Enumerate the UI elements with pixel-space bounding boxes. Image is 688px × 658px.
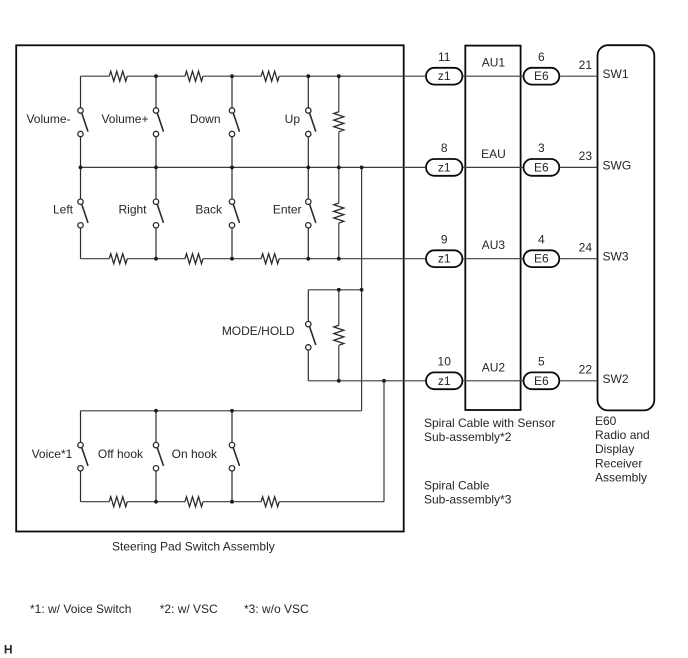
switch Back	[229, 167, 239, 258]
svg-text:E6: E6	[534, 69, 549, 83]
wire voice row bottom bus seg3	[203, 501, 261, 503]
junction row4 x=384.0	[382, 379, 386, 383]
junction MODE/HOLD top x=361.6	[360, 288, 364, 292]
wire EAU through spiral box	[463, 166, 522, 168]
svg-text:Up: Up	[285, 112, 301, 126]
wire row1 bus (AU1 net) seg4	[279, 75, 425, 77]
wire E6 to E60 row SW3	[560, 258, 597, 260]
resistor row3 seg3	[261, 254, 279, 264]
junction MODE/HOLD top x=338.8	[337, 288, 341, 292]
resistor voice seg1	[109, 497, 127, 507]
svg-text:8: 8	[441, 141, 448, 155]
svg-text:z1: z1	[438, 374, 451, 388]
wire AU3 through spiral box	[463, 258, 522, 260]
switch MODE/HOLD	[306, 290, 316, 381]
junction row3 x=308.3	[306, 257, 310, 261]
svg-text:Down: Down	[190, 112, 221, 126]
resistor row3 seg1	[109, 254, 127, 264]
svg-text:Spiral CableSub-assembly*3: Spiral CableSub-assembly*3	[424, 479, 512, 507]
svg-text:E6: E6	[534, 374, 549, 388]
svg-text:SW3: SW3	[603, 250, 629, 264]
svg-text:Back: Back	[195, 202, 223, 216]
svg-text:21: 21	[579, 58, 593, 72]
switch Right	[153, 167, 163, 258]
switch Left	[78, 167, 88, 258]
svg-text:On hook: On hook	[172, 447, 218, 461]
junction row3 x=156.0	[154, 257, 158, 261]
svg-text:MODE/HOLD: MODE/HOLD	[222, 324, 295, 338]
junction row1 x=156.0	[154, 74, 158, 78]
svg-text:SW2: SW2	[603, 372, 629, 386]
connector z1 (EAU row)	[426, 159, 462, 176]
svg-text:EAU: EAU	[481, 147, 506, 161]
resistor row3 seg2	[185, 254, 203, 264]
svg-text:22: 22	[579, 362, 593, 376]
connector E6 (SW3 row)	[524, 250, 560, 267]
svg-text:10: 10	[438, 355, 452, 369]
resistor voice seg3	[261, 497, 279, 507]
resistor MODE/HOLD parallel resistor	[334, 325, 344, 345]
junction row1 x=308.3	[306, 74, 310, 78]
junction voice top x=232.0	[230, 409, 234, 413]
resistor row1 seg3	[261, 71, 279, 81]
svg-text:AU1: AU1	[482, 56, 506, 70]
resistor voice seg2	[185, 497, 203, 507]
switch On hook	[229, 411, 239, 502]
svg-text:SW1: SW1	[603, 67, 629, 81]
svg-text:24: 24	[579, 240, 593, 254]
resistor row1 seg1	[109, 71, 127, 81]
svg-text:Enter: Enter	[273, 202, 302, 216]
svg-text:9: 9	[441, 233, 448, 247]
svg-text:Volume-: Volume-	[26, 112, 70, 126]
wire AU2 through spiral box	[463, 380, 522, 382]
junction voice top x=156.0	[154, 409, 158, 413]
svg-text:Off hook: Off hook	[98, 447, 144, 461]
svg-text:z1: z1	[438, 160, 451, 174]
junction row4 x=338.8	[337, 379, 341, 383]
wire row3 bus (AU3 net) seg1	[81, 258, 110, 260]
wire vertical drop row2 to voice top	[361, 167, 363, 410]
wire resistor col stub c2	[338, 345, 340, 381]
wire AU1 through spiral box	[463, 75, 522, 77]
switch Enter	[306, 167, 316, 258]
svg-text:SWG: SWG	[603, 158, 632, 172]
svg-text:AU2: AU2	[482, 360, 506, 374]
wire row3 bus (AU3 net) seg4	[279, 258, 425, 260]
connector z1 (AU3 row)	[426, 250, 462, 267]
svg-text:Steering Pad Switch Assembly: Steering Pad Switch Assembly	[112, 540, 275, 554]
svg-text:Spiral Cable with SensorSub-as: Spiral Cable with SensorSub-assembly*2	[424, 416, 555, 444]
svg-text:z1: z1	[438, 252, 451, 266]
svg-text:*2: w/ VSC: *2: w/ VSC	[160, 602, 218, 616]
wire resistor col stub a1	[338, 76, 340, 112]
svg-text:H: H	[4, 643, 13, 657]
svg-text:*1: w/ Voice Switch: *1: w/ Voice Switch	[30, 602, 131, 616]
svg-text:*3: w/o VSC: *3: w/o VSC	[244, 602, 309, 616]
wire resistor col stub b1	[338, 167, 340, 203]
wire row3 bus (AU3 net) seg3	[203, 258, 261, 260]
svg-text:4: 4	[538, 233, 545, 247]
connector E6 (SW2 row)	[524, 372, 560, 389]
svg-text:23: 23	[579, 149, 593, 163]
wire row1 bus (AU1 net) seg2	[127, 75, 185, 77]
switch Off hook	[153, 411, 163, 502]
resistor pull-up row1-row2	[334, 112, 344, 132]
wire row2 bus (EAU net)	[81, 166, 426, 168]
junction row1 x=232.0	[230, 74, 234, 78]
resistor pull-up row2-row3	[334, 203, 344, 223]
switch Down	[229, 76, 239, 167]
switch Up	[306, 76, 316, 167]
wire resistor col stub a2	[338, 132, 340, 168]
svg-text:Voice*1: Voice*1	[32, 447, 73, 461]
svg-text:Volume+: Volume+	[101, 112, 148, 126]
junction row3 x=232.0	[230, 257, 234, 261]
wire voice row bottom bus seg4	[279, 501, 384, 503]
connector E6 (SWG row)	[524, 159, 560, 176]
connector E6 (SW1 row)	[524, 68, 560, 85]
wire resistor col stub c1	[338, 290, 340, 326]
E60 radio and display receiver assembly box	[598, 45, 655, 410]
switch Volume+	[153, 76, 163, 167]
svg-text:E6: E6	[534, 160, 549, 174]
connector z1 (AU2 row)	[426, 372, 462, 389]
wire voice row bottom bus seg1	[81, 501, 110, 503]
svg-text:11: 11	[438, 50, 451, 64]
junction voice bottom x=232.0	[230, 500, 234, 504]
wire voice row bottom bus seg2	[127, 501, 185, 503]
wire E6 to E60 row SW1	[560, 75, 597, 77]
svg-text:z1: z1	[438, 69, 451, 83]
spiral cable with sensor sub-assembly box	[465, 46, 520, 410]
svg-text:Right: Right	[118, 202, 147, 216]
svg-text:E6: E6	[534, 252, 549, 266]
steering pad switch assembly box	[16, 45, 404, 531]
junction row2 x=80.5	[79, 166, 83, 170]
junction row3 x=338.8	[337, 257, 341, 261]
junction row2 x=361.6	[360, 166, 364, 170]
wire row3 bus (AU3 net) seg2	[127, 258, 185, 260]
junction row1 x=338.8	[337, 74, 341, 78]
wire resistor col stub b2	[338, 223, 340, 259]
wire E6 to E60 row SW2	[560, 380, 597, 382]
svg-text:5: 5	[538, 355, 545, 369]
svg-text:AU3: AU3	[482, 238, 506, 252]
wire vertical drop row4 to voice bottom	[383, 381, 385, 502]
wire voice row top bus	[81, 410, 362, 412]
svg-text:6: 6	[538, 50, 545, 64]
junction row2 x=308.3	[306, 166, 310, 170]
switch Volume-	[78, 76, 88, 167]
wire row1 bus (AU1 net) seg1	[81, 75, 110, 77]
connector z1 (AU1 row)	[426, 68, 462, 85]
resistor row1 seg2	[185, 71, 203, 81]
junction row2 x=156.0	[154, 166, 158, 170]
junction voice bottom x=156.0	[154, 500, 158, 504]
switch Voice*1	[78, 411, 88, 502]
wire E6 to E60 row SWG	[560, 166, 597, 168]
junction row2 x=338.8	[337, 166, 341, 170]
svg-text:Left: Left	[53, 202, 74, 216]
wire row1 bus (AU1 net) seg3	[203, 75, 261, 77]
wire MODE/HOLD top	[308, 289, 361, 291]
junction row2 x=232.0	[230, 166, 234, 170]
svg-text:3: 3	[538, 141, 545, 155]
svg-text:E60Radio andDisplayReceiverAss: E60Radio andDisplayReceiverAssembly	[595, 414, 650, 484]
wire row4 bus (AU2 net)	[308, 380, 425, 382]
